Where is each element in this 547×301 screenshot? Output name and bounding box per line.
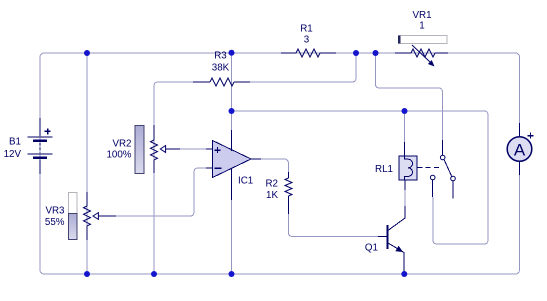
svg-text:55%: 55% — [45, 217, 65, 228]
svg-text:A: A — [514, 141, 526, 160]
svg-text:12V: 12V — [4, 149, 22, 160]
svg-text:R2: R2 — [265, 179, 278, 190]
svg-text:VR3: VR3 — [45, 206, 65, 217]
svg-text:B1: B1 — [9, 137, 21, 148]
svg-text:VR2: VR2 — [112, 139, 131, 150]
svg-text:R1: R1 — [300, 24, 313, 35]
svg-text:3: 3 — [304, 35, 310, 46]
svg-text:100%: 100% — [106, 149, 131, 160]
svg-text:1K: 1K — [266, 190, 278, 201]
svg-text:RL1: RL1 — [375, 164, 393, 175]
svg-text:38K: 38K — [212, 63, 230, 74]
svg-text:IC1: IC1 — [238, 176, 253, 187]
svg-text:R3: R3 — [214, 51, 227, 62]
svg-text:Q1: Q1 — [365, 243, 378, 254]
svg-text:1: 1 — [419, 21, 424, 32]
